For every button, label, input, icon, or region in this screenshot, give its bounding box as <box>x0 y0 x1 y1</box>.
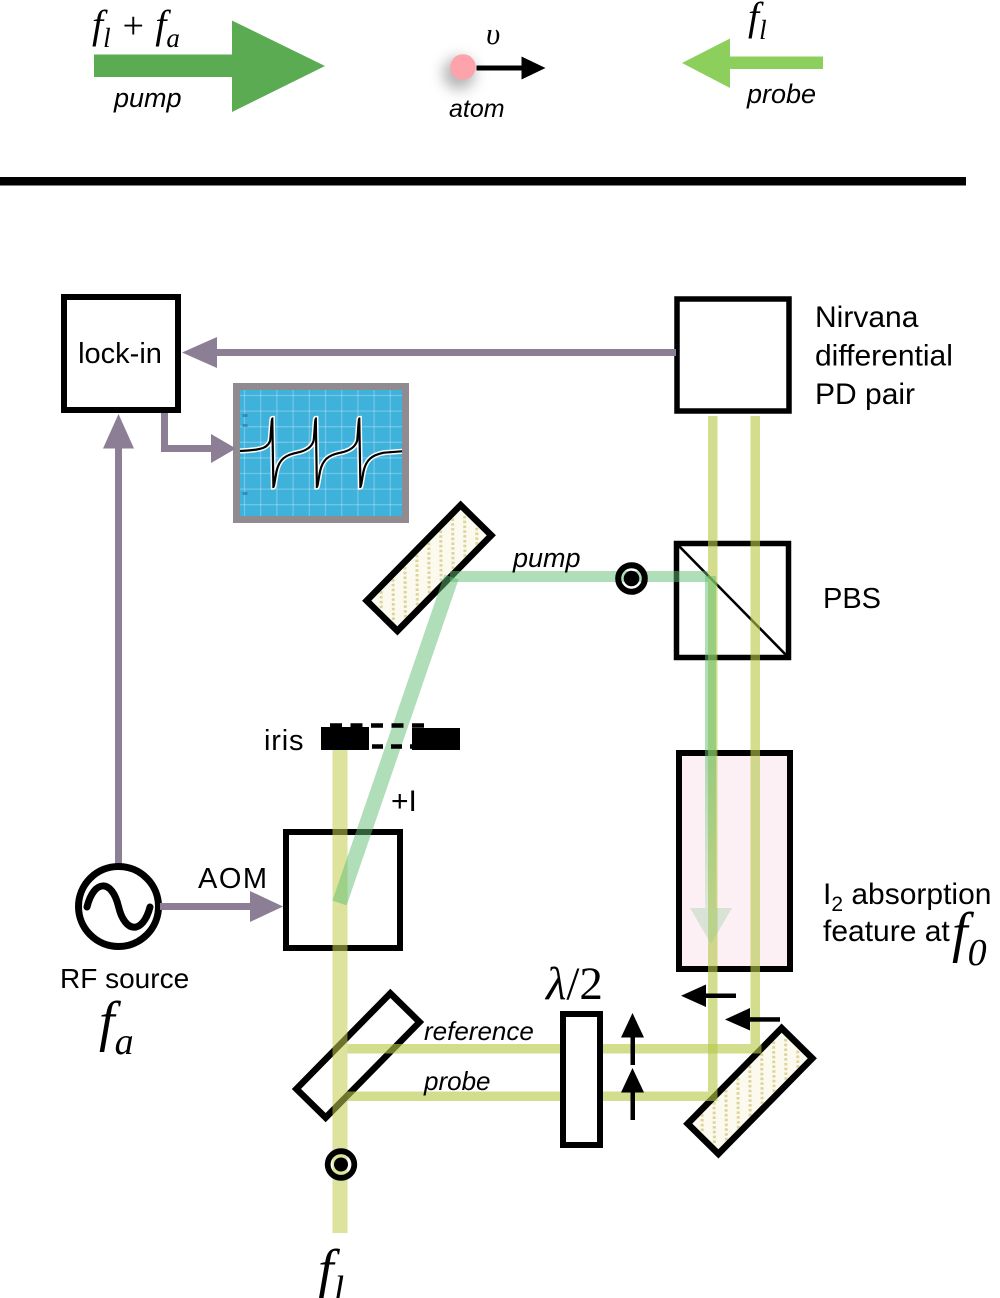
PBS box <box>677 544 789 658</box>
I2 absorption cell <box>679 753 790 969</box>
polarization arrow up 1 (reference) <box>621 1013 644 1065</box>
polarization symbol (pump, circled dot) <box>618 565 645 592</box>
mirror M1 (upper) <box>306 444 552 693</box>
iris blades <box>321 726 460 751</box>
polarization arrow up 2 (probe) <box>621 1068 644 1120</box>
svg-text:atom: atom <box>449 95 505 123</box>
beam: probe return vertical <box>708 416 718 1092</box>
absorbed pump arrowhead in cell <box>690 908 732 944</box>
separator line <box>0 177 966 186</box>
svg-text:lock-in: lock-in <box>78 338 162 370</box>
scope screen side markings <box>243 414 248 495</box>
svg-text:feature at: feature at <box>823 915 950 948</box>
lambda/2 waveplate <box>563 1014 600 1145</box>
wire: lock-in to scope <box>161 413 236 463</box>
polarization arrow left 2 <box>725 1008 780 1031</box>
svg-text:Nirvana: Nirvana <box>815 301 919 334</box>
svg-text:probe: probe <box>746 79 816 109</box>
lock-in box <box>64 297 178 410</box>
AOM box <box>286 832 400 948</box>
svg-text:pump: pump <box>113 83 182 113</box>
beam: pump vertical (PBS down into cell, absorbed) <box>705 576 716 908</box>
pump arrow (top) <box>94 21 325 113</box>
mirror M2 (lower right) <box>627 967 873 1216</box>
beam: reference return vertical <box>751 416 761 1044</box>
beam: pump +1 diagonal (AOM to mirror) <box>340 577 452 903</box>
scope trace: dispersion curves <box>240 419 402 488</box>
beam: reference horizontal <box>348 1044 762 1054</box>
atom shadow <box>443 58 475 90</box>
svg-text:reference: reference <box>424 1016 534 1046</box>
beam: pump horizontal (mirror to PBS) <box>450 571 708 582</box>
wire: Nirvana PD to lock-in <box>182 337 676 368</box>
beam: f_l laser vertical <box>333 750 348 1233</box>
RF source circle <box>79 867 159 947</box>
svg-text:iris: iris <box>264 725 304 757</box>
wire: RF source to AOM <box>160 891 283 922</box>
svg-text:PD pair: PD pair <box>815 378 915 411</box>
svg-text:differential: differential <box>815 340 953 373</box>
Nirvana differential PD pair box <box>677 299 789 411</box>
svg-text:+I: +I <box>391 785 417 818</box>
polarization symbol (f_l, circled dot) <box>328 1151 355 1178</box>
probe arrow (top) <box>682 39 823 89</box>
wire: RF source to lock-in <box>103 414 134 865</box>
svg-text:PBS: PBS <box>823 583 881 615</box>
svg-text:λ/2: λ/2 <box>544 958 603 1010</box>
oscilloscope <box>233 383 409 523</box>
svg-text:RF source: RF source <box>60 963 189 994</box>
svg-text:AOM: AOM <box>198 863 269 895</box>
beamsplitter BS (bottom) <box>296 993 419 1117</box>
svg-text:υ: υ <box>486 16 500 51</box>
atom <box>450 54 476 80</box>
beam: probe horizontal <box>348 1092 718 1102</box>
polarization arrow left 1 (below cell) <box>681 985 736 1008</box>
svg-text:probe: probe <box>423 1066 491 1096</box>
atom velocity arrow <box>477 57 546 80</box>
svg-text:pump: pump <box>512 543 581 573</box>
